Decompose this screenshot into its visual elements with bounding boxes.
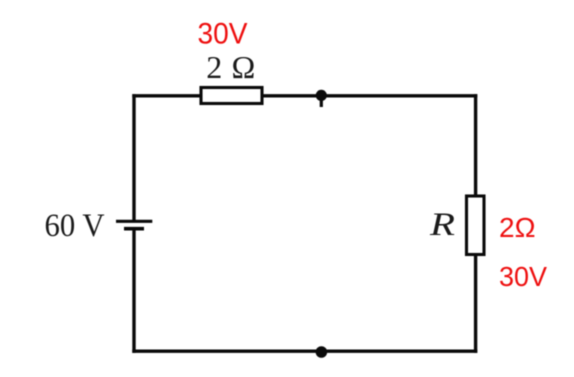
svg-text:R: R [429, 207, 455, 243]
wire top-right segment [262, 94, 476, 97]
resistor R (right, 2 ohm) [467, 196, 485, 255]
svg-text:30V: 30V [499, 261, 547, 292]
wire left side upper (top to battery) [132, 96, 135, 220]
node junction dot bottom [316, 346, 328, 358]
node stub below top junction [320, 96, 323, 107]
svg-text:2 Ω: 2 Ω [206, 49, 255, 85]
wire bottom segment [134, 350, 476, 353]
wire right side lower [474, 255, 477, 351]
wire right side upper [474, 96, 477, 196]
battery V1 long plate [116, 220, 152, 223]
svg-text:60 V: 60 V [45, 208, 105, 244]
wire top-left segment [134, 94, 201, 97]
svg-text:30V: 30V [198, 17, 248, 50]
battery V1 short plate [124, 227, 144, 231]
resistor (top, 2 ohm) [201, 88, 262, 104]
node junction dot top [316, 90, 327, 101]
wire left side lower (battery to bottom) [132, 229, 135, 351]
svg-text:2Ω: 2Ω [499, 212, 536, 243]
